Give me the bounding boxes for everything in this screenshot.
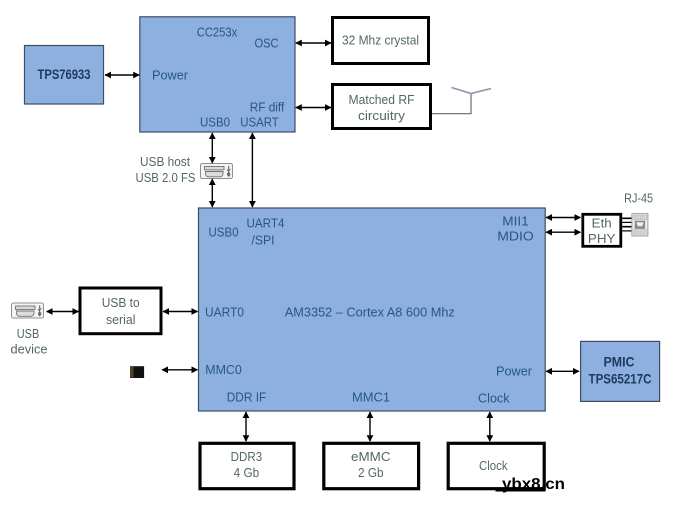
svg-text:Matched RF: Matched RF (349, 93, 415, 107)
icon USB host connector (201, 164, 233, 179)
svg-text:USB: USB (17, 327, 40, 341)
svg-text:32 Mhz crystal: 32 Mhz crystal (342, 34, 419, 48)
wire AM3352 Power to PMIC (546, 370, 579, 372)
svg-text:MMC1: MMC1 (352, 391, 390, 405)
svg-text:Eth: Eth (592, 217, 612, 231)
block AM3352 (199, 208, 546, 411)
wire CC253x USB0 down to USB connector (211, 133, 213, 163)
wire USB to serial to AM3352 UART0 (163, 311, 198, 313)
svg-text:Power: Power (496, 365, 532, 379)
wire AM3352 Clock to Clock block (489, 412, 491, 441)
wire AM3352 MDIO to Eth PHY (546, 231, 581, 233)
svg-text:RJ-45: RJ-45 (624, 192, 653, 206)
svg-text:MDIO: MDIO (497, 230, 534, 244)
svg-text:Clock: Clock (478, 392, 510, 406)
block PMIC TPS65217C (581, 341, 660, 401)
wire USB connector down to AM3352 USB0 (211, 179, 213, 207)
svg-text:Power: Power (152, 69, 188, 83)
antenna (432, 88, 491, 114)
svg-text:4 Gb: 4 Gb (234, 466, 260, 480)
svg-text:PHY: PHY (588, 232, 616, 246)
svg-text:serial: serial (106, 313, 136, 327)
label USB host / USB 2.0 FS (136, 155, 196, 185)
svg-text:USART: USART (240, 116, 279, 130)
wire CC253x USART down to AM3352 UART4/SPI (251, 133, 253, 207)
block Eth PHY (583, 214, 621, 246)
bus Eth PHY to RJ-45 (622, 218, 632, 231)
svg-text:USB 2.0 FS: USB 2.0 FS (136, 171, 196, 185)
wire AM3352 MII1 to Eth PHY (546, 217, 581, 219)
wire CC253x OSC to 32 Mhz crystal (296, 42, 331, 44)
block Clock (448, 443, 544, 488)
svg-text:DDR IF: DDR IF (227, 391, 267, 405)
wire AM3352 MMC1 to eMMC (369, 412, 371, 441)
svg-text:UART4: UART4 (247, 217, 285, 231)
svg-text:MMC0: MMC0 (205, 363, 242, 377)
svg-text:USB to: USB to (102, 296, 140, 310)
svg-text:circuitry: circuitry (358, 109, 406, 123)
svg-text:/SPI: /SPI (252, 234, 275, 248)
block DDR3 4 Gb (200, 443, 294, 488)
icon USB device connector (12, 303, 44, 318)
wire TPS76933 to CC253x Power (105, 74, 139, 76)
wire AM3352 DDR IF to DDR3 (245, 412, 247, 441)
svg-text:eMMC: eMMC (351, 450, 391, 464)
svg-text:PMIC: PMIC (604, 355, 635, 370)
svg-text:USB0: USB0 (200, 116, 230, 130)
svg-text:AM3352 – Cortex A8 600 Mhz: AM3352 – Cortex A8 600 Mhz (285, 306, 455, 320)
svg-text:OSC: OSC (255, 37, 279, 51)
icon RJ-45 jack (632, 214, 648, 236)
icon microSD card (130, 366, 144, 378)
block eMMC 2 Gb (324, 443, 419, 488)
wire CC253x RF diff to Matched RF circuitry (296, 107, 331, 109)
svg-text:TPS65217C: TPS65217C (589, 372, 652, 387)
wire USB device to USB to serial (47, 311, 79, 313)
svg-text:device: device (11, 343, 48, 357)
svg-text:USB0: USB0 (209, 226, 239, 240)
wire microSD to AM3352 MMC0 (162, 369, 198, 371)
svg-text:2 Gb: 2 Gb (358, 466, 384, 480)
block 32 Mhz crystal (333, 18, 429, 64)
svg-text:RF diff: RF diff (250, 101, 285, 115)
block TPS76933 (25, 46, 104, 105)
svg-text:TPS76933: TPS76933 (38, 67, 91, 82)
block CC253x (140, 17, 295, 132)
label USB device (11, 327, 48, 357)
svg-text:USB host: USB host (140, 155, 190, 169)
svg-text:DDR3: DDR3 (231, 450, 263, 464)
block USB to serial (80, 288, 161, 334)
watermark ybx8.cn (496, 476, 566, 493)
svg-text:UART0: UART0 (205, 306, 244, 320)
block Matched RF circuitry (333, 85, 431, 129)
svg-text:MII1: MII1 (502, 215, 529, 229)
svg-text:Clock: Clock (479, 459, 508, 473)
svg-text:CC253x: CC253x (197, 26, 238, 40)
